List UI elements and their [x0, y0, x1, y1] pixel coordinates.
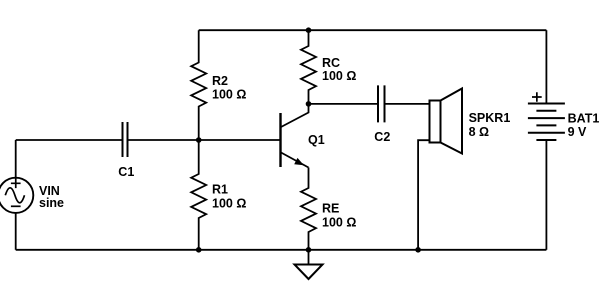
transistor Q1 — [281, 104, 309, 168]
svg-text:100 Ω: 100 Ω — [212, 87, 246, 101]
resistor RC — [301, 30, 316, 104]
svg-text:RC: RC — [322, 56, 340, 70]
wire base (node A to Q1 base) — [199, 139, 280, 141]
node emitter ground junction — [306, 247, 312, 253]
wire battery top lead — [545, 30, 547, 103]
wire C1 to node A — [128, 139, 199, 141]
node speaker return junction — [415, 247, 421, 253]
battery plus sign — [532, 92, 542, 102]
wire bottom rail — [16, 249, 547, 251]
wire C2 to speaker — [385, 103, 430, 105]
battery BAT1 — [528, 104, 565, 141]
ground — [295, 250, 323, 279]
svg-text:100 Ω: 100 Ω — [212, 196, 246, 210]
wire VIN bottom lead — [15, 213, 17, 250]
resistor R2 — [191, 30, 206, 140]
svg-text:100 Ω: 100 Ω — [322, 69, 356, 83]
svg-text:R2: R2 — [212, 74, 228, 88]
svg-text:RE: RE — [322, 201, 339, 215]
svg-text:BAT1: BAT1 — [568, 112, 600, 126]
resistor RE — [301, 168, 316, 250]
svg-text:R1: R1 — [212, 182, 228, 196]
wire VIN top lead — [15, 140, 17, 178]
node R1 bottom junction — [196, 247, 202, 253]
svg-text:9 V: 9 V — [568, 125, 587, 139]
wire top rail — [199, 29, 547, 31]
capacitor C1 — [123, 122, 128, 157]
capacitor C2 — [378, 85, 385, 122]
Q1 emitter arrow — [294, 158, 304, 165]
resistor R1 — [191, 140, 206, 250]
node top rail / RC junction — [306, 27, 312, 33]
svg-text:SPKR1: SPKR1 — [469, 111, 511, 125]
source VIN — [0, 178, 33, 213]
wire input rail (VIN top to C1) — [16, 139, 123, 141]
svg-text:8 Ω: 8 Ω — [469, 125, 489, 139]
svg-text:sine: sine — [39, 196, 64, 210]
node A (base divider junction) — [196, 137, 202, 143]
svg-text:Q1: Q1 — [308, 133, 325, 147]
wire speaker return — [418, 140, 429, 250]
wire collector rail (node C to C2) — [309, 103, 378, 105]
wire battery bottom lead — [545, 140, 547, 250]
svg-text:C2: C2 — [374, 130, 390, 144]
svg-text:100 Ω: 100 Ω — [322, 216, 356, 230]
svg-text:C1: C1 — [118, 165, 134, 179]
node C (collector junction) — [306, 101, 312, 107]
speaker SPKR1 — [430, 89, 463, 154]
